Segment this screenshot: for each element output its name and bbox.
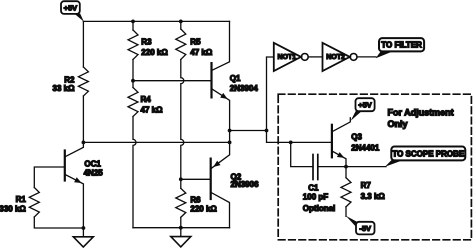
wire long node (OC1 collector to Q2 emitter) <box>83 141 229 143</box>
svg-text:R6: R6 <box>190 196 201 205</box>
transistor Q3 2N4401 <box>332 118 350 167</box>
dashed adjustment region <box>278 94 471 240</box>
svg-text:47 kΩ: 47 kΩ <box>190 48 213 57</box>
ground left <box>73 228 93 247</box>
capacitor C1 branch <box>291 142 313 166</box>
wire NOT1 input <box>267 57 274 131</box>
resistor R4 <box>128 88 138 117</box>
svg-text:C1: C1 <box>308 183 319 192</box>
svg-text:+5V: +5V <box>358 101 372 110</box>
svg-text:TO SCOPE PROBE: TO SCOPE PROBE <box>392 149 465 158</box>
resistor R1 <box>29 188 39 218</box>
svg-text:47 kΩ: 47 kΩ <box>141 105 164 114</box>
resistor R3 <box>132 21 134 30</box>
svg-text:R2: R2 <box>64 75 75 84</box>
wire R4 bottom to rail with hop <box>133 117 136 228</box>
wire emitters to NOT input <box>230 130 267 132</box>
-5V supply label <box>346 216 375 235</box>
inverter NOT1 <box>274 43 308 71</box>
svg-text:R3: R3 <box>141 37 152 46</box>
wire R1 bottom rail <box>34 217 83 228</box>
TO FILTER flag <box>376 38 424 58</box>
wire NOT-input node down-jog to Q3 base <box>267 131 332 143</box>
svg-text:2N3904: 2N3904 <box>230 84 259 93</box>
svg-text:R7: R7 <box>361 181 372 190</box>
wire R2 bottom to node <box>82 96 84 142</box>
wire R3 to R4 <box>132 60 134 88</box>
phototransistor OC1 4N25 <box>65 142 84 228</box>
resistor R5 <box>180 21 182 29</box>
svg-text:OC1: OC1 <box>84 160 101 169</box>
wire NOT1 to NOT2 <box>308 56 322 58</box>
svg-text:Q3: Q3 <box>351 132 362 141</box>
svg-text:TO FILTER: TO FILTER <box>381 41 422 50</box>
svg-text:-5V: -5V <box>359 224 371 233</box>
svg-text:220 kΩ: 220 kΩ <box>141 48 168 57</box>
resistor R7 <box>345 167 347 178</box>
wire R5 bottom to Q2 base junction with two hops <box>181 60 184 180</box>
wire C1 to emitter node <box>318 166 386 168</box>
wire middle (R3/R4 junction to Q1 base) <box>133 80 212 82</box>
inverter NOT2 <box>323 43 358 71</box>
svg-text:33 kΩ: 33 kΩ <box>53 84 76 93</box>
svg-text:For Adjustment: For Adjustment <box>388 108 454 118</box>
wire NOT2 out <box>357 56 376 58</box>
resistor R2 <box>78 67 88 96</box>
svg-text:330 kΩ: 330 kΩ <box>0 204 26 213</box>
capacitor C1 <box>313 155 318 180</box>
svg-text:R5: R5 <box>190 37 201 46</box>
wire top rail <box>83 20 229 22</box>
svg-text:Only: Only <box>388 119 408 129</box>
svg-text:+5V: +5V <box>64 4 78 13</box>
svg-text:NOT2: NOT2 <box>326 54 345 61</box>
svg-text:R4: R4 <box>141 95 152 104</box>
svg-text:100 pF: 100 pF <box>303 193 328 202</box>
resistor R6 <box>180 179 182 188</box>
TO SCOPE PROBE flag <box>385 147 465 167</box>
transistor Q2 2N3906 <box>211 131 230 228</box>
svg-text:Q1: Q1 <box>230 74 241 83</box>
svg-text:4N25: 4N25 <box>84 168 104 177</box>
svg-text:3.3 kΩ: 3.3 kΩ <box>361 192 386 201</box>
svg-text:2N4401: 2N4401 <box>351 143 380 152</box>
wire left vertical (node to R2) <box>82 21 84 67</box>
+5V supply rail label <box>61 1 84 21</box>
wire Q2 base <box>181 178 211 180</box>
svg-text:220 kΩ: 220 kΩ <box>190 204 217 213</box>
svg-text:2N3906: 2N3906 <box>231 180 260 189</box>
wire OC1 base to R1 <box>34 167 65 188</box>
wire bottom rail right <box>133 227 230 229</box>
svg-text:NOT1: NOT1 <box>278 54 297 61</box>
svg-text:Optional: Optional <box>303 204 335 213</box>
svg-text:R1: R1 <box>16 195 27 204</box>
transistor Q1 2N3904 <box>212 21 230 130</box>
ground right <box>171 228 191 247</box>
+5V supply label (adjustment) <box>351 98 375 121</box>
